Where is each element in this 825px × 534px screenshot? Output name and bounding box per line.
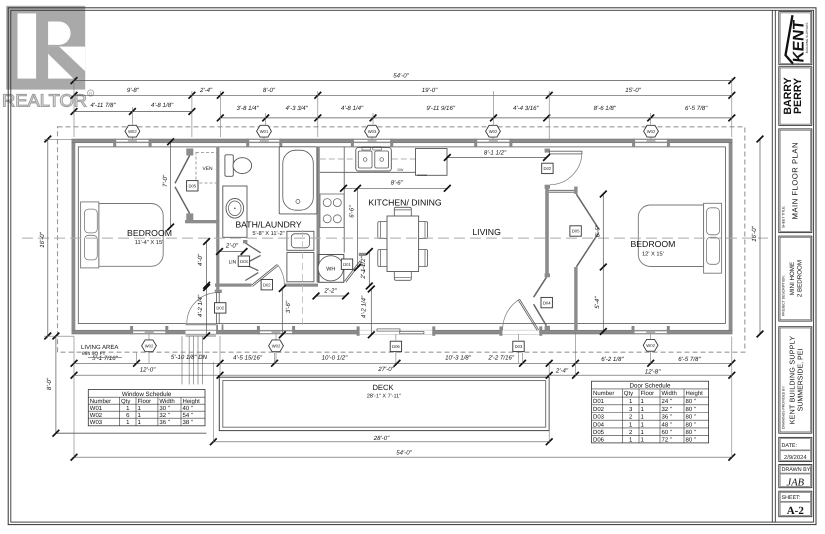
svg-text:Width: Width bbox=[159, 398, 174, 405]
svg-text:W02: W02 bbox=[489, 129, 498, 134]
svg-text:D04: D04 bbox=[593, 421, 605, 428]
svg-text:D02: D02 bbox=[544, 166, 552, 171]
svg-text:5'-8" X 11'-2": 5'-8" X 11'-2" bbox=[252, 231, 284, 237]
tag window W02 bottom 1 bbox=[142, 340, 157, 352]
svg-text:D05: D05 bbox=[188, 184, 196, 189]
svg-text:48 ": 48 " bbox=[662, 421, 672, 428]
svg-text:W02: W02 bbox=[145, 343, 154, 348]
living-closet wall A bbox=[545, 185, 549, 277]
dim left deck 8ft bbox=[55, 336, 57, 433]
exterior wall top bbox=[72, 139, 733, 143]
svg-text:D03: D03 bbox=[593, 414, 605, 421]
svg-text:5'-10 1/8" DN: 5'-10 1/8" DN bbox=[171, 354, 208, 361]
svg-text:3'-6": 3'-6" bbox=[285, 300, 292, 313]
svg-text:D02: D02 bbox=[216, 306, 224, 311]
tag door D06 bbox=[390, 341, 401, 351]
svg-text:DATE:: DATE: bbox=[782, 443, 797, 449]
svg-text:DRAWINGS PROVIDED BY:: DRAWINGS PROVIDED BY: bbox=[782, 386, 786, 429]
washer bbox=[287, 231, 314, 250]
fridge bbox=[416, 149, 448, 176]
dim left closet 7-0 bbox=[170, 142, 172, 227]
svg-text:BEDROOM: BEDROOM bbox=[630, 239, 675, 249]
svg-text:80 ": 80 " bbox=[686, 406, 696, 413]
dim bottom row 1 bbox=[74, 362, 732, 364]
svg-text:80 ": 80 " bbox=[686, 429, 696, 436]
bed left bedroom bbox=[99, 204, 163, 267]
door schedule table bbox=[592, 381, 709, 443]
door D01 swing arc bbox=[361, 261, 365, 273]
dim kitchen 8-6 bbox=[344, 187, 448, 189]
svg-text:Door Schedule: Door Schedule bbox=[630, 383, 671, 390]
svg-text:Floor: Floor bbox=[641, 390, 655, 397]
svg-text:8'-0": 8'-0" bbox=[46, 377, 53, 390]
svg-text:PROJECT DESCRIPTION:: PROJECT DESCRIPTION: bbox=[782, 275, 786, 316]
svg-text:36 ": 36 " bbox=[662, 414, 672, 421]
dim 3-6 bbox=[281, 289, 283, 335]
dim row B bbox=[74, 94, 732, 96]
sliding door D06 panels bbox=[377, 329, 400, 331]
svg-text:D05: D05 bbox=[572, 229, 580, 234]
svg-text:D02: D02 bbox=[263, 282, 271, 287]
svg-text:Height: Height bbox=[183, 398, 201, 405]
bath door D02 swing arc bbox=[278, 265, 285, 285]
svg-text:KITCHEN/ DINING: KITCHEN/ DINING bbox=[368, 197, 442, 207]
toilet bbox=[225, 155, 233, 177]
bedroom west wall stub top bbox=[574, 187, 577, 195]
window W02 top wall right bedroom bbox=[635, 139, 667, 143]
upper cabinets dashed bbox=[320, 158, 448, 160]
patio sliding door D06 opening bbox=[359, 330, 432, 334]
svg-text:80 ": 80 " bbox=[686, 421, 696, 428]
svg-text:4'-0": 4'-0" bbox=[197, 253, 204, 266]
dim living 8-1 1/2 bbox=[447, 157, 546, 159]
svg-text:3'-8 1/4": 3'-8 1/4" bbox=[236, 105, 259, 112]
svg-text:8'-6 1/8": 8'-6 1/8" bbox=[594, 105, 617, 112]
svg-text:DW: DW bbox=[398, 168, 405, 172]
svg-text:5'-1 7/16": 5'-1 7/16" bbox=[92, 355, 119, 362]
svg-text:4'-2 1/4": 4'-2 1/4" bbox=[361, 295, 368, 318]
svg-text:W02: W02 bbox=[272, 343, 281, 348]
svg-text:60 ": 60 " bbox=[662, 429, 672, 436]
door D01 leaf diagonal bbox=[345, 261, 362, 283]
svg-text:W01: W01 bbox=[90, 405, 103, 412]
linen closet bifold D03 bbox=[245, 243, 260, 281]
svg-text:BATH/LAUNDRY: BATH/LAUNDRY bbox=[235, 219, 302, 229]
svg-text:30 ": 30 " bbox=[159, 405, 169, 412]
dim 4-2 1/4 near D06 bbox=[370, 289, 372, 335]
bath door D02 leaf bbox=[252, 264, 279, 286]
svg-text:6'-6": 6'-6" bbox=[348, 205, 355, 218]
tag leader lines bbox=[131, 137, 133, 139]
window W02 bottom wall left bedroom bbox=[133, 330, 166, 334]
tag door D05 right closet bbox=[570, 226, 581, 236]
svg-text:PERRY: PERRY bbox=[792, 78, 804, 114]
closet top shelf bbox=[549, 189, 576, 191]
tag door D02 bedroom right bbox=[542, 163, 553, 173]
svg-text:JAB: JAB bbox=[787, 478, 805, 489]
svg-text:BUILDING SUPPLIES: BUILDING SUPPLIES bbox=[805, 23, 809, 54]
tag window W03 top bbox=[365, 125, 380, 137]
svg-text:LIN: LIN bbox=[229, 259, 237, 265]
water heater closet bbox=[318, 255, 344, 283]
svg-text:Width: Width bbox=[662, 390, 677, 397]
exterior wall edge lines bbox=[72, 138, 733, 140]
REALTOR watermark logo bbox=[2, 6, 94, 111]
svg-text:54'-0": 54'-0" bbox=[396, 449, 412, 456]
dim left 16ft bbox=[47, 139, 49, 336]
door D02 jambs top right bbox=[545, 149, 550, 153]
svg-text:D05: D05 bbox=[593, 429, 605, 436]
svg-text:4'-2 1/4": 4'-2 1/4" bbox=[197, 294, 204, 317]
svg-text:40 ": 40 " bbox=[183, 405, 193, 412]
svg-text:4'-11 7/8": 4'-11 7/8" bbox=[90, 102, 116, 109]
hall wall end jamb bbox=[215, 290, 222, 293]
title block: DRAWN BY JAB bbox=[779, 465, 812, 488]
svg-text:MAIN FLOOR PLAN: MAIN FLOOR PLAN bbox=[791, 142, 800, 219]
svg-text:W01: W01 bbox=[260, 129, 269, 134]
interior face of exterior walls bbox=[78, 147, 725, 324]
dim right 16ft bbox=[759, 139, 761, 334]
svg-text:D02: D02 bbox=[593, 406, 605, 413]
svg-text:12'-0": 12'-0" bbox=[140, 367, 156, 374]
svg-text:32 ": 32 " bbox=[159, 412, 169, 419]
svg-text:LIVING AREA: LIVING AREA bbox=[81, 344, 118, 351]
svg-text:15'-0": 15'-0" bbox=[625, 87, 641, 94]
dim WH 2-1 1/2 bbox=[368, 252, 370, 287]
door D02 swing arc top right bbox=[550, 154, 582, 185]
svg-text:8'-1 1/2": 8'-1 1/2" bbox=[484, 149, 507, 156]
svg-text:6'-6": 6'-6" bbox=[595, 224, 602, 237]
dim row A 54ft bbox=[74, 80, 732, 82]
tag door D02 bath bbox=[261, 280, 272, 290]
bathtub bbox=[279, 147, 317, 214]
top extension lines bbox=[73, 78, 75, 137]
svg-text:9'-8": 9'-8" bbox=[127, 87, 140, 94]
dining table bbox=[387, 216, 419, 272]
svg-text:Height: Height bbox=[686, 390, 704, 397]
tag window W02 top 1 bbox=[125, 125, 140, 137]
svg-text:12' X 15': 12' X 15' bbox=[642, 251, 664, 257]
svg-text:Qty: Qty bbox=[121, 398, 130, 405]
svg-text:SHEET:: SHEET: bbox=[782, 495, 801, 501]
tag door D03 deck bbox=[513, 341, 524, 351]
svg-text:54 ": 54 " bbox=[183, 412, 193, 419]
svg-text:4'-4 3/16": 4'-4 3/16" bbox=[513, 105, 540, 112]
kitchen double sink bbox=[356, 148, 392, 171]
exterior wall right bbox=[729, 139, 733, 334]
svg-text:SHEET TITLE:: SHEET TITLE: bbox=[782, 206, 786, 228]
title block: BARRY PERRY bbox=[779, 67, 812, 126]
dim right closet 6-6 bbox=[602, 194, 604, 267]
horizontal dashed reference line bbox=[22, 237, 768, 239]
svg-text:D04: D04 bbox=[543, 300, 551, 305]
svg-text:4'-8 1/4": 4'-8 1/4" bbox=[341, 105, 364, 112]
svg-text:D01: D01 bbox=[593, 398, 605, 405]
tag door D04 bbox=[541, 297, 552, 307]
svg-text:2'-4": 2'-4" bbox=[199, 87, 213, 94]
svg-text:2'-2": 2'-2" bbox=[323, 288, 337, 295]
tag window W01 top bbox=[257, 125, 272, 137]
svg-text:MINI HOME: MINI HOME bbox=[789, 262, 796, 295]
svg-text:W02: W02 bbox=[90, 412, 103, 419]
svg-text:D01: D01 bbox=[343, 262, 351, 267]
svg-text:W03: W03 bbox=[368, 129, 377, 134]
svg-text:Qty: Qty bbox=[624, 390, 633, 397]
dryer bbox=[287, 252, 314, 281]
window W02 bottom wall laundry bbox=[260, 330, 293, 334]
window W02 bottom wall right bedroom bbox=[634, 330, 667, 334]
bedroom door D02 leaf bbox=[216, 293, 219, 324]
window W02 top wall left bedroom bbox=[116, 139, 149, 143]
svg-text:D03: D03 bbox=[240, 259, 248, 264]
svg-text:W02: W02 bbox=[646, 343, 655, 348]
bifold doors D05 right closet bbox=[576, 194, 598, 267]
svg-text:16'-0": 16'-0" bbox=[39, 231, 46, 247]
closet bottom wall bbox=[185, 220, 219, 223]
bifold door D05 left closet bbox=[175, 156, 190, 214]
svg-text:2'-1 1/2": 2'-1 1/2" bbox=[360, 256, 367, 280]
svg-text:D03: D03 bbox=[515, 344, 523, 349]
svg-text:D06: D06 bbox=[593, 437, 605, 444]
window W01 top wall bath bbox=[249, 139, 280, 143]
dim row C left bbox=[74, 111, 192, 113]
svg-text:28'-1" X 7'-11": 28'-1" X 7'-11" bbox=[367, 394, 401, 400]
svg-text:Window Schedule: Window Schedule bbox=[122, 391, 172, 398]
svg-text:Floor: Floor bbox=[138, 398, 152, 405]
deck outline bbox=[219, 377, 549, 430]
bottom extension lines bbox=[73, 337, 75, 458]
door D02 leaf top right bbox=[549, 151, 582, 154]
dim bottom row 2 bbox=[74, 374, 732, 376]
svg-text:7'-0": 7'-0" bbox=[162, 174, 169, 187]
svg-text:DECK: DECK bbox=[372, 383, 393, 392]
svg-text:W03: W03 bbox=[90, 419, 103, 426]
svg-text:WH: WH bbox=[326, 266, 335, 272]
svg-text:LIVING: LIVING bbox=[472, 227, 501, 237]
svg-text:4'-5 15/16": 4'-5 15/16" bbox=[233, 355, 263, 362]
walkway edge line bbox=[56, 432, 207, 434]
title block: DATE 2/9/2024 bbox=[779, 437, 812, 461]
svg-text:6'-2 1/8": 6'-2 1/8" bbox=[601, 356, 624, 363]
dim hall 4-0 bbox=[206, 242, 208, 286]
tag door D02 bedroom left bbox=[215, 303, 226, 313]
svg-text:DRAWN BY:: DRAWN BY: bbox=[782, 467, 812, 473]
tag door D03 linen bbox=[238, 256, 249, 266]
bath west wall / hallway wall bbox=[216, 147, 219, 293]
bath bottom wall west segment bbox=[215, 284, 252, 287]
svg-text:24 ": 24 " bbox=[662, 398, 672, 405]
svg-text:A-2: A-2 bbox=[787, 505, 805, 517]
kitchen west wall bbox=[317, 147, 320, 282]
dim bedroom door 4-2 1/4 bbox=[206, 288, 208, 336]
svg-text:27'-0": 27'-0" bbox=[377, 366, 394, 373]
bedroom exterior door D02 opening in bottom wall bbox=[186, 330, 217, 335]
svg-text:6'-5 7/8": 6'-5 7/8" bbox=[685, 105, 708, 112]
svg-text:2'-0": 2'-0" bbox=[225, 243, 239, 250]
svg-text:5'-4": 5'-4" bbox=[594, 296, 601, 309]
svg-text:8'-0": 8'-0" bbox=[263, 87, 276, 94]
svg-text:80 ": 80 " bbox=[686, 398, 696, 405]
bath vanity bbox=[223, 186, 247, 237]
dim WH 2-2 bbox=[316, 295, 346, 297]
kitchen counter top front edge bbox=[320, 171, 448, 173]
svg-text:Number: Number bbox=[90, 398, 111, 405]
exterior wall bottom bbox=[72, 330, 733, 334]
svg-text:16'-0": 16'-0" bbox=[751, 225, 758, 241]
svg-text:36 ": 36 " bbox=[159, 419, 169, 426]
dim row D bbox=[220, 117, 732, 119]
svg-text:KENT BUILDING SUPPLY: KENT BUILDING SUPPLY bbox=[790, 336, 797, 425]
deck door D03 opening bbox=[502, 330, 540, 334]
bifold door D04 bbox=[534, 277, 547, 325]
svg-text:10'-3 1/8": 10'-3 1/8" bbox=[445, 355, 472, 362]
svg-text:80 ": 80 " bbox=[686, 437, 696, 444]
svg-text:BEDROOM: BEDROOM bbox=[127, 228, 172, 238]
svg-text:D06: D06 bbox=[392, 344, 400, 349]
dim bath 6-6 bbox=[357, 188, 359, 267]
tag door D05 left closet bbox=[187, 181, 198, 191]
svg-text:12'-8": 12'-8" bbox=[645, 369, 661, 376]
dining chairs bbox=[378, 222, 388, 239]
tag window W02 bottom 2 bbox=[269, 340, 284, 352]
svg-text:2'-4": 2'-4" bbox=[555, 367, 569, 374]
svg-text:W02: W02 bbox=[647, 129, 656, 134]
bath bottom wall east segment bbox=[288, 284, 318, 287]
window W02 top wall living bbox=[477, 139, 510, 143]
tag window W02 top 3 bbox=[644, 125, 659, 137]
stove bbox=[320, 194, 344, 228]
svg-text:10'-0 1/2": 10'-0 1/2" bbox=[322, 355, 349, 362]
bath door D02 jamb bbox=[284, 284, 287, 287]
dim 5-4 bbox=[602, 267, 604, 332]
VEN closet dashed shelving bbox=[196, 153, 219, 184]
bedroom door D02 swing arc bbox=[187, 293, 218, 324]
svg-text:72 ": 72 " bbox=[662, 437, 672, 444]
title block: project description MINI HOME 2 BEDROOM bbox=[779, 236, 812, 321]
tag window W02 bottom 3 bbox=[643, 339, 658, 351]
svg-text:38 ": 38 " bbox=[183, 419, 193, 426]
svg-text:80 ": 80 " bbox=[686, 414, 696, 421]
title block: drawings provided by KENT BUILDING SUPPLY bbox=[779, 327, 812, 434]
tag window W02 top 2 bbox=[486, 125, 501, 137]
left bedroom closet jambs bbox=[186, 149, 193, 156]
dim overall bottom 54ft bbox=[74, 456, 732, 458]
roof overhang dashed outline bbox=[58, 127, 745, 352]
dim linen 2-0 bbox=[220, 251, 245, 253]
svg-text:28'-0": 28'-0" bbox=[373, 435, 390, 442]
vertical dashed reference line laundry bbox=[302, 230, 304, 329]
svg-text:W02: W02 bbox=[128, 129, 137, 134]
svg-text:54'-0": 54'-0" bbox=[393, 72, 409, 79]
bed right bedroom bbox=[638, 205, 703, 267]
title block separator double line bbox=[771, 10, 773, 522]
dim deck 28ft bbox=[213, 441, 549, 443]
svg-text:4'-8 1/8": 4'-8 1/8" bbox=[151, 102, 174, 109]
window schedule table bbox=[88, 390, 205, 426]
title block: KENT logo box bbox=[779, 12, 812, 65]
svg-text:VEN: VEN bbox=[202, 166, 213, 172]
door D03 swing arc bbox=[503, 299, 520, 330]
tag door D01 WH bbox=[341, 259, 352, 269]
title block: sheet title MAIN FLOOR PLAN bbox=[779, 129, 812, 233]
svg-text:32 ": 32 " bbox=[662, 406, 672, 413]
kitchen counter left front edge bbox=[343, 147, 345, 253]
title block: SHEET A-2 bbox=[779, 491, 812, 517]
svg-text:11'-4" X 15': 11'-4" X 15' bbox=[135, 240, 163, 246]
deck stairs DN bbox=[181, 336, 183, 384]
svg-text:19'-0": 19'-0" bbox=[422, 87, 438, 94]
svg-text:2'-2 7/16": 2'-2 7/16" bbox=[487, 355, 515, 362]
svg-text:SUMMERSIDE, PEI: SUMMERSIDE, PEI bbox=[798, 349, 805, 412]
bedroom west wall lower bbox=[574, 267, 577, 330]
exterior wall left bbox=[72, 139, 76, 334]
svg-text:2 BEDROOM: 2 BEDROOM bbox=[797, 260, 804, 297]
svg-text:2/9/2024: 2/9/2024 bbox=[784, 454, 807, 461]
svg-text:9'-11 9/16": 9'-11 9/16" bbox=[426, 105, 455, 112]
svg-text:6'-5 7/8": 6'-5 7/8" bbox=[678, 356, 701, 363]
window W03 top wall kitchen sink bbox=[354, 139, 391, 143]
door D03 leaf bbox=[520, 299, 539, 330]
svg-text:4'-3 3/4": 4'-3 3/4" bbox=[286, 105, 309, 112]
svg-text:8'-6": 8'-6" bbox=[391, 179, 404, 186]
svg-text:Number: Number bbox=[593, 390, 614, 397]
